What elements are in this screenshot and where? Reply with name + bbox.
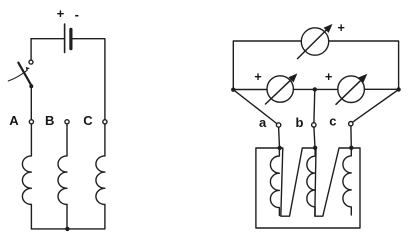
winding coil C — [96, 156, 105, 205]
wire switch to node A — [30, 88, 32, 119]
wire left drop to switch — [30, 39, 32, 60]
wire node C to coil C — [104, 124, 106, 156]
ammeter M3 needle arrow — [336, 79, 362, 104]
wire top loop left of ammeter M1 — [233, 41, 301, 90]
wire node a to core — [278, 127, 281, 148]
battery BT1 long plate — [64, 24, 66, 53]
wire node B to coil B — [66, 124, 68, 156]
node C terminal — [103, 120, 107, 124]
switch S1 top contact — [29, 60, 33, 64]
wire M2 to M3 through middle junction — [293, 88, 338, 90]
switch S1 pivot dot — [29, 84, 33, 88]
wire diagonal right dot to node c — [353, 90, 399, 123]
junction dot right — [396, 87, 400, 91]
wire M3 to right dot — [364, 88, 398, 90]
wire battery left horizontal — [31, 38, 64, 40]
node A terminal — [29, 120, 33, 124]
ammeter M3 body — [338, 76, 365, 103]
node a terminal — [276, 123, 280, 127]
wire middle dot to node b — [313, 89, 316, 122]
junction dot winding a — [277, 146, 281, 150]
switch S1 blade (open) — [18, 63, 31, 86]
winding a coil on left leg — [270, 148, 279, 216]
node c terminal — [349, 122, 353, 126]
stator core outline with two slots — [256, 148, 360, 228]
winding coil B — [58, 156, 67, 205]
wire battery right horizontal and right drop to node C — [73, 39, 105, 120]
junction dot bottom bus at B — [65, 227, 69, 231]
junction dot winding c — [349, 146, 353, 150]
svg-text:+: + — [325, 70, 332, 84]
winding c coil on right leg — [343, 148, 351, 215]
wire node b to core — [314, 127, 315, 148]
wire bottom bus — [31, 228, 105, 230]
winding coil A — [22, 156, 31, 205]
ammeter M2 needle arrow — [266, 79, 293, 104]
svg-text:B: B — [45, 113, 54, 128]
junction dot middle — [313, 87, 317, 91]
junction dot left — [231, 88, 235, 92]
wire node A to coil A — [30, 124, 32, 156]
junction dot winding b — [313, 146, 317, 150]
svg-text:+: + — [57, 6, 65, 21]
svg-text:+: + — [337, 21, 344, 35]
svg-text:-: - — [75, 7, 79, 22]
svg-text:C: C — [83, 113, 93, 128]
switch closing motion arc — [8, 70, 27, 81]
wire coil A to bottom — [30, 205, 32, 229]
wire node c to core — [350, 126, 352, 148]
wire top loop right of ammeter M1 — [329, 41, 399, 89]
wire diagonal left dot to node a — [233, 90, 276, 124]
ammeter M2 body — [267, 76, 293, 102]
winding b coil on middle leg — [307, 148, 315, 216]
battery BT1 short thick plate — [69, 29, 72, 48]
svg-text:c: c — [329, 114, 336, 129]
ammeter M1 body — [301, 28, 328, 55]
wire coil B to bottom — [66, 205, 68, 229]
svg-text:+: + — [254, 70, 261, 84]
node B terminal — [65, 120, 69, 124]
svg-text:b: b — [296, 115, 304, 130]
switch closing motion arrowhead — [26, 67, 30, 70]
svg-text:A: A — [9, 113, 19, 128]
ammeter M1 needle arrow — [298, 29, 328, 58]
wire row2 left dot to M2 — [233, 89, 267, 91]
wire coil C to bottom — [104, 205, 106, 229]
svg-text:a: a — [259, 115, 267, 130]
node b terminal — [312, 123, 316, 127]
